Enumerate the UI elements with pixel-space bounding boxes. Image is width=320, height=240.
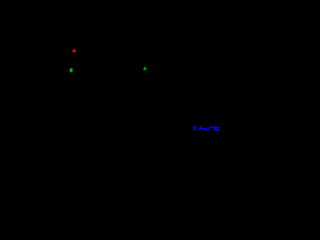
- blue watermark: [193, 126, 218, 130]
- glyph dash: [211, 126, 212, 128]
- red LED dot: [72, 49, 75, 52]
- glyph long bar: [199, 128, 206, 130]
- glyph descender dot: [216, 130, 218, 132]
- green LED rectangle: [70, 69, 72, 73]
- green arrow marker: [144, 67, 147, 70]
- glyph slash: [208, 126, 211, 130]
- glyph V stroke 2: [217, 127, 219, 130]
- glyph 2 top bar: [214, 126, 216, 128]
- glyph 2 diagonal: [214, 128, 215, 130]
- glyph descender nub: [205, 129, 207, 132]
- glyph X: [193, 126, 196, 130]
- watermark brightness pass: [193, 126, 218, 130]
- glyph 2 bottom bar: [213, 129, 215, 131]
- glyph f-stem: [199, 127, 201, 131]
- glyph V stroke 1: [217, 127, 219, 130]
